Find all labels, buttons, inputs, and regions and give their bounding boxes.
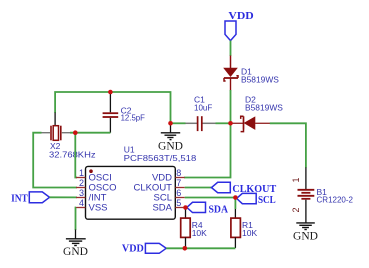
wire pin 7 to CLKOUT port (185, 187, 212, 189)
ground under VSS (63, 230, 88, 259)
svg-text:10uF: 10uF (194, 103, 212, 113)
capacitor C2 12.5pF (103, 92, 145, 133)
pin 3 /INT (76, 197, 86, 199)
wire D1 to junction (230, 90, 232, 123)
port CLKOUT (212, 182, 277, 195)
svg-text:7: 7 (176, 178, 181, 188)
svg-text:B5819WS: B5819WS (241, 75, 279, 85)
wire crystal right to OSCI (pin 1) (70, 133, 77, 178)
wire INT to pin 3 (50, 196, 78, 198)
junction dot C2 top (108, 90, 113, 95)
junction dot C1/GND (168, 121, 173, 126)
wire junction down to pin 8 (184, 123, 231, 177)
pin 2 OSCO (76, 187, 86, 189)
IC U1 PCF8563T/5,518 (86, 145, 197, 220)
wire VDD to D1 (230, 41, 232, 56)
resistor R1 10K (231, 218, 258, 238)
svg-text:INT: INT (11, 194, 28, 205)
diode D1 B5819WS (224, 56, 279, 91)
junction dot crystal right (73, 130, 78, 135)
pin 8 VDD (175, 177, 184, 179)
svg-text:2: 2 (291, 207, 301, 212)
svg-text:CR1220-2: CR1220-2 (317, 195, 354, 205)
R1 bottom lead (234, 237, 236, 248)
wire VSS to ground (75, 208, 78, 231)
svg-text:GND: GND (293, 231, 318, 243)
svg-text:5: 5 (176, 198, 181, 208)
svg-text:PCF8563T/5,518: PCF8563T/5,518 (124, 153, 197, 163)
svg-text:10K: 10K (192, 228, 207, 238)
svg-text:B5819WS: B5819WS (245, 103, 283, 113)
svg-text:1: 1 (79, 168, 84, 178)
port VDD bottom (122, 243, 166, 254)
svg-text:SDA: SDA (209, 205, 229, 216)
svg-text:8: 8 (176, 168, 181, 178)
svg-text:VDD: VDD (122, 243, 144, 254)
wire junction left to C1 (216, 122, 231, 124)
resistor R4 10K (181, 218, 207, 238)
svg-text:4: 4 (79, 198, 84, 208)
ground under C1 junction (158, 123, 183, 152)
svg-text:3: 3 (79, 188, 84, 198)
svg-text:32.768KHz: 32.768KHz (49, 150, 96, 160)
junction dot main (D1/D2/C1/pin8) (228, 121, 233, 126)
pin 7 CLKOUT (175, 187, 184, 189)
svg-text:6: 6 (176, 188, 181, 198)
svg-text:GND: GND (63, 246, 88, 258)
pin 6 SCL (175, 197, 184, 199)
pin 4 VSS (76, 207, 86, 209)
wire crystal junction to C2 bottom (75, 132, 110, 134)
pin 5 SDA (175, 207, 184, 209)
ground under battery (293, 223, 318, 243)
pin 1 OSCI (76, 177, 86, 179)
diode D2 B5819WS (232, 95, 283, 132)
svg-text:VSS: VSS (89, 203, 108, 214)
junction dot SDA (183, 205, 188, 210)
wire D2 to battery (270, 123, 306, 168)
port SDA (187, 202, 229, 215)
wire VDD bottom to resistors (166, 247, 235, 249)
svg-text:SCL: SCL (258, 195, 276, 206)
wire crystal left to OSCO (pin 2) (33, 133, 77, 188)
wire SDA junction down to R4 (185, 208, 187, 219)
battery B1 CR1220-2 (291, 167, 353, 222)
svg-text:SDA: SDA (152, 203, 172, 214)
port INT (11, 192, 49, 205)
svg-text:GND: GND (158, 141, 183, 153)
svg-text:2: 2 (79, 178, 84, 188)
wire pin 6 to SCL junction (185, 197, 236, 199)
wire SCL junction down to R1 (234, 198, 236, 210)
junction dot SCL (233, 195, 238, 200)
wire C1 to GND junction (171, 122, 186, 124)
port VDD top (225, 11, 254, 40)
crystal X2 32.768KHz (42, 113, 96, 160)
top rail wire (crystal top / C2 top / GND) (55, 92, 170, 123)
svg-text:10K: 10K (242, 228, 257, 238)
capacitor C1 10uF (185, 95, 216, 132)
svg-text:1: 1 (291, 177, 301, 182)
svg-text:12.5pF: 12.5pF (121, 113, 145, 123)
port SCL (237, 193, 276, 205)
junction dot VDD bottom rail (183, 246, 188, 251)
R4 bottom lead (185, 237, 187, 248)
